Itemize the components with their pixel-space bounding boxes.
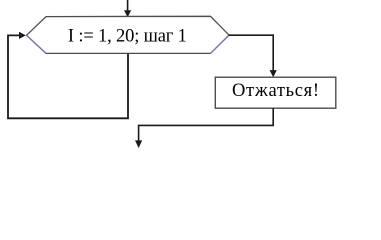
svg-text:Отжаться!: Отжаться! bbox=[232, 81, 319, 101]
hexagon lower-left slant (blue tint) bbox=[27, 35, 47, 53]
rectangle: process block bbox=[215, 77, 335, 108]
wire: loop back from hexagon bottom to left vertex bbox=[8, 35, 128, 118]
arrowhead final exit bbox=[135, 140, 142, 148]
wire: loop header right vertex to process block bbox=[229, 35, 274, 70]
arrowhead into hexagon left vertex bbox=[19, 32, 26, 39]
arrowhead into hexagon top bbox=[124, 10, 131, 17]
svg-text:I := 1, 20; шаг 1: I := 1, 20; шаг 1 bbox=[68, 26, 187, 46]
hexagon lower-right slant (blue tint) bbox=[211, 35, 230, 53]
hexagon: loop header block bbox=[27, 16, 230, 53]
wire: entry line into loop header bbox=[127, 0, 129, 11]
wire: process exit down-left-down bbox=[139, 108, 274, 141]
arrowhead into rectangle top bbox=[270, 70, 277, 77]
